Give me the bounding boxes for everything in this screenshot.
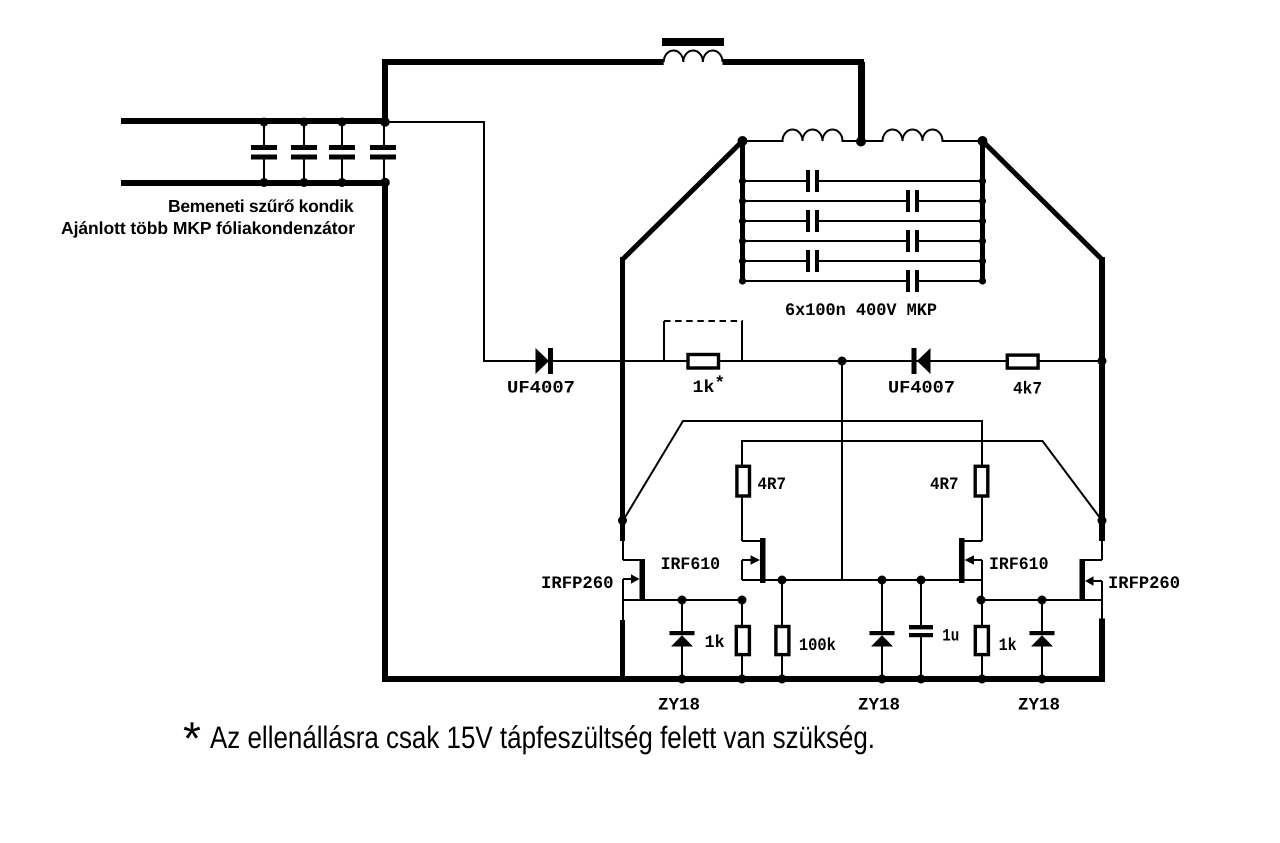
svg-text:IRFP260: IRFP260 <box>1108 574 1180 594</box>
label: IRFP260 left <box>541 574 614 594</box>
inductor L2a left tank winding <box>743 130 862 142</box>
svg-text:*: * <box>183 712 201 764</box>
node: tank left <box>738 136 748 146</box>
capacitor input C4 <box>370 124 396 180</box>
wire: left source bus y600 <box>623 599 743 601</box>
wire: top supply rail right segment <box>723 59 865 65</box>
wire: input top rail <box>121 118 388 124</box>
label: 1k left <box>705 633 725 653</box>
svg-text:UF4007: UF4007 <box>507 379 575 399</box>
label: 100k <box>799 636 836 656</box>
svg-text:4k7: 4k7 <box>1013 380 1042 400</box>
label: IRFP260 right <box>1108 574 1180 594</box>
node: center tap junction <box>856 137 866 147</box>
label: 4R7 left <box>758 475 787 495</box>
inductor L2b right tank winding <box>861 130 983 142</box>
wire: bottom ground rail <box>382 676 1105 682</box>
transistor IRFP260 left <box>623 541 645 601</box>
label: 4R7 right <box>930 475 959 495</box>
svg-text:100k: 100k <box>799 636 836 656</box>
jumper dashed bypass around 1k <box>664 321 743 361</box>
wire: tank bus 1 <box>743 180 983 182</box>
capacitor tank 6 <box>906 270 919 292</box>
diode UF4007 right <box>912 348 931 374</box>
wire: cross-coupling line 1 <box>623 421 983 522</box>
svg-text:IRFP260: IRFP260 <box>541 574 614 594</box>
wire: tank bus 5 <box>743 260 983 262</box>
caption: footnote text <box>183 712 875 764</box>
capacitor tank 5 <box>806 250 819 272</box>
svg-text:UF4007: UF4007 <box>888 379 955 399</box>
svg-text:ZY18: ZY18 <box>658 696 700 716</box>
wire: right drain rail <box>1099 257 1105 541</box>
svg-text:ZY18: ZY18 <box>1018 696 1060 716</box>
wire: center tap drop <box>858 62 865 142</box>
label: 1k right <box>999 636 1017 656</box>
label: ZY18 middle <box>858 696 900 716</box>
capacitor tank 4 <box>906 230 919 252</box>
wire: feed from top rail to oscillator row <box>388 122 537 361</box>
svg-text:4R7: 4R7 <box>758 475 787 495</box>
svg-text:Ajánlott több MKP fóliakondenz: Ajánlott több MKP fóliakondenzátor <box>61 218 355 238</box>
wire: tank right rail <box>980 141 985 282</box>
wire: center gate feed down <box>841 361 843 580</box>
svg-text:6x100n 400V MKP: 6x100n 400V MKP <box>785 301 937 321</box>
label: 1k* <box>693 374 726 398</box>
capacitor tank 1 <box>806 170 819 192</box>
resistor 100k <box>776 580 789 677</box>
wire: right source to ground rail <box>1101 600 1103 681</box>
svg-text:Bemeneti szűrő kondik: Bemeneti szűrő kondik <box>168 196 354 216</box>
transistor IRF610 right <box>959 538 982 600</box>
svg-text:Az ellenállásra csak 15V tápfe: Az ellenállásra csak 15V tápfeszültség f… <box>210 720 875 755</box>
wire: source bus y580 <box>742 579 982 581</box>
resistor 1k left <box>736 600 749 677</box>
junction dots right source bus <box>977 596 1047 605</box>
capacitor tank 3 <box>806 210 819 232</box>
wire: tank left rail <box>740 141 745 282</box>
label: IRF610 right <box>989 555 1049 575</box>
wire: cross-coupling line 2 <box>742 441 1102 521</box>
resistor 4R7 left <box>737 465 750 541</box>
capacitor input C1 <box>251 124 277 180</box>
label: IRF610 left <box>661 555 721 575</box>
junction dots on source bus y580 <box>778 576 926 585</box>
junction dots tank right rail <box>979 177 986 284</box>
wire: top supply rail left segment <box>382 59 664 65</box>
wire: left drain rail <box>620 257 625 541</box>
wire: tank bus 4 <box>743 240 983 242</box>
svg-text:1k: 1k <box>705 633 725 653</box>
diode UF4007 left <box>536 348 554 374</box>
resistor 1k right <box>975 600 988 677</box>
junction dots tank left rail <box>739 177 746 284</box>
wire: input bottom rail <box>121 180 388 186</box>
wire: tank bus 6 <box>743 280 983 282</box>
node: oscillator row center junction <box>838 357 847 366</box>
zener ZY18 left <box>670 600 695 677</box>
zener ZY18 middle <box>870 580 895 677</box>
label: UF4007 left <box>507 379 575 399</box>
junction dots on ground rail <box>678 675 1047 684</box>
capacitor input C2 <box>291 124 317 180</box>
wire: left supply rail vertical <box>382 62 388 682</box>
wire: right diagonal from tank <box>983 141 1103 260</box>
wire: oscillator row <box>537 360 1102 362</box>
label: ZY18 left <box>658 696 700 716</box>
label: 1u <box>942 627 959 647</box>
wire: left diagonal from tank <box>623 141 743 260</box>
resistor 4k7 <box>1007 355 1038 368</box>
capacitor 1u <box>909 580 933 677</box>
inductor L1 choke core bar <box>662 38 724 46</box>
capacitor tank 2 <box>906 190 919 212</box>
resistor 4R7 right <box>975 465 988 541</box>
resistor 1k* <box>688 355 719 369</box>
wire: right source bus y600 <box>981 599 1102 601</box>
label: 6x100n 400V MKP <box>785 301 937 321</box>
junction dots input top rail <box>260 117 390 127</box>
svg-text:1u: 1u <box>942 627 959 647</box>
svg-text:1k: 1k <box>999 636 1017 656</box>
inductor L1 choke winding <box>664 51 723 63</box>
svg-text:4R7: 4R7 <box>930 475 959 495</box>
label: ZY18 right <box>1018 696 1060 716</box>
zener ZY18 right <box>1030 600 1055 677</box>
svg-text:IRF610: IRF610 <box>661 555 721 575</box>
transistor IRF610 left <box>742 538 766 583</box>
label: Ajanlott tobb MKP foliakondenzator <box>61 218 355 238</box>
label: Bemeneti szuro kondik <box>168 196 354 216</box>
svg-text:IRF610: IRF610 <box>989 555 1049 575</box>
junction dots left source bus <box>678 596 747 605</box>
svg-text:1k: 1k <box>693 378 715 398</box>
junction dots input bottom rail <box>260 178 390 188</box>
wire: left source to ground rail <box>622 600 625 681</box>
wire: tank bus 2 <box>743 200 983 202</box>
node: junction on left rail <box>618 516 627 525</box>
transistor IRFP260 right <box>1080 541 1103 601</box>
node: oscillator row right junction <box>1098 357 1107 366</box>
node: junction on right rail <box>1098 516 1107 525</box>
svg-text:*: * <box>715 374 726 394</box>
wire: tank bus 3 <box>743 220 983 222</box>
label: 4k7 <box>1013 380 1042 400</box>
capacitor input C3 <box>329 124 355 180</box>
svg-text:ZY18: ZY18 <box>858 696 900 716</box>
node: tank right <box>978 136 988 146</box>
label: UF4007 right <box>888 379 955 399</box>
